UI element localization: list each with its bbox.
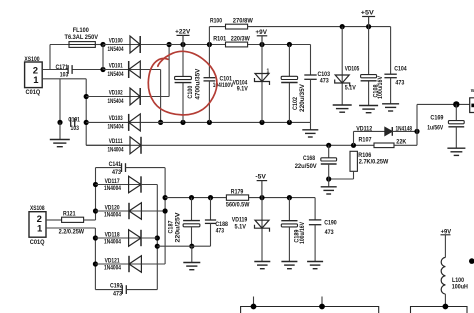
- svg-text:5.1V: 5.1V: [235, 224, 247, 230]
- svg-text:103: 103: [71, 126, 80, 132]
- svg-text:1: 1: [37, 223, 43, 234]
- svg-text:C102: C102: [293, 96, 299, 110]
- fuse FL100: [65, 28, 99, 47]
- capacitor C103: [304, 45, 330, 123]
- capacitor C189: [281, 198, 306, 262]
- capacitor C190: [309, 198, 337, 262]
- diode VD121: [95, 256, 141, 272]
- ground: [254, 262, 270, 269]
- power +9V: [255, 30, 267, 45]
- wire VD102 cathode to +22V rail: [141, 42, 172, 97]
- svg-text:1N4004: 1N4004: [108, 148, 124, 154]
- svg-text:VD119: VD119: [232, 218, 248, 224]
- svg-text:R106: R106: [358, 153, 372, 159]
- svg-text:473: 473: [113, 291, 123, 297]
- svg-text:1N5404: 1N5404: [108, 72, 124, 78]
- resistor R106: [326, 151, 389, 181]
- svg-text:C190: C190: [324, 220, 337, 226]
- svg-text:VD100: VD100: [109, 38, 123, 44]
- svg-text:1N5404: 1N5404: [108, 125, 124, 131]
- svg-text:1N4004: 1N4004: [104, 186, 122, 192]
- ground: [447, 148, 465, 155]
- wire output to C169: [417, 101, 470, 107]
- capacitor C104: [384, 27, 407, 104]
- wire +22V rail: [141, 42, 311, 47]
- svg-text:2.2/0.25W: 2.2/0.25W: [59, 229, 85, 235]
- capacitor C168: [295, 145, 337, 179]
- svg-text:FL100: FL100: [73, 28, 90, 34]
- svg-text:R121: R121: [63, 211, 76, 217]
- diode VD102: [86, 88, 140, 105]
- svg-text:9.1V: 9.1V: [237, 86, 248, 92]
- connector XS108: [29, 206, 46, 246]
- ground: [333, 105, 352, 112]
- diode VD118: [95, 230, 141, 246]
- connector XS100: [24, 57, 42, 96]
- capacitor C108: [361, 27, 384, 106]
- ground: [359, 106, 378, 113]
- svg-text:-5V: -5V: [255, 175, 266, 181]
- svg-text:220/3W: 220/3W: [231, 37, 250, 43]
- wire VD120/VD121 anode rail: [142, 168, 168, 264]
- svg-text:22K: 22K: [396, 140, 407, 146]
- wire pin1 riser x86: [84, 79, 130, 146]
- resistor R179: [226, 189, 250, 208]
- resistor R100: [209, 18, 390, 44]
- ground: [382, 104, 399, 111]
- svg-text:270/8W: 270/8W: [233, 19, 253, 25]
- svg-text:473: 473: [320, 78, 330, 84]
- power +9V: [441, 229, 452, 257]
- svg-text:1: 1: [267, 69, 270, 75]
- diode VD120: [96, 203, 142, 219]
- svg-text:C168: C168: [303, 156, 316, 162]
- svg-text:220u/35V: 220u/35V: [300, 84, 306, 112]
- svg-text:5.1V: 5.1V: [345, 86, 356, 92]
- ground: [321, 179, 337, 194]
- svg-text:XS100: XS100: [24, 57, 40, 63]
- svg-text:VD102: VD102: [109, 90, 123, 96]
- svg-text:22u/50V: 22u/50V: [295, 164, 317, 170]
- inductor L100: [441, 257, 468, 306]
- wire ground rail: [141, 120, 311, 125]
- diode VD117: [96, 176, 142, 192]
- capacitor C171: [56, 65, 73, 79]
- wire right edge stub: [469, 258, 474, 264]
- wire VD117/VD118 cathode rail: [141, 185, 160, 290]
- capacitor C169: [427, 104, 464, 148]
- svg-text:C141: C141: [109, 162, 122, 168]
- connector right edge: [470, 88, 474, 113]
- svg-text:4700u/35V: 4700u/35V: [196, 69, 202, 100]
- capacitor C187: [169, 198, 200, 249]
- svg-text:1: 1: [33, 75, 39, 86]
- svg-text:+9V: +9V: [255, 30, 267, 36]
- svg-text:1N4148: 1N4148: [396, 126, 413, 132]
- svg-text:L100: L100: [452, 278, 465, 284]
- box bottom-right: [411, 304, 468, 313]
- svg-text:R100: R100: [210, 18, 223, 24]
- svg-text:C100: C100: [188, 85, 194, 99]
- resistor R107: [359, 104, 418, 147]
- ground: [183, 246, 200, 270]
- annotation red circle: [148, 51, 217, 115]
- svg-text:C169: C169: [430, 116, 444, 122]
- svg-text:1N4004: 1N4004: [104, 212, 122, 218]
- svg-text:VD105: VD105: [345, 66, 360, 72]
- diode VD111: [86, 137, 141, 154]
- svg-text:C192: C192: [110, 284, 123, 290]
- svg-text:C103: C103: [318, 72, 331, 78]
- wire stub pin A: [251, 297, 257, 310]
- svg-text:R107: R107: [359, 137, 373, 143]
- wire stub pin B: [319, 297, 325, 310]
- svg-text:560/0.5W: 560/0.5W: [226, 202, 250, 208]
- ground: [302, 122, 318, 137]
- svg-text:+22V: +22V: [175, 29, 190, 35]
- svg-text:C101: C101: [220, 76, 233, 82]
- svg-text:C01Q: C01Q: [30, 240, 45, 246]
- svg-text:VD111: VD111: [109, 139, 124, 145]
- svg-text:1N4004: 1N4004: [104, 239, 122, 245]
- svg-text:1N5404: 1N5404: [108, 99, 124, 105]
- svg-text:XS108: XS108: [30, 206, 45, 212]
- svg-text:C104: C104: [394, 66, 407, 72]
- svg-text:C187: C187: [169, 220, 175, 234]
- svg-text:+5V: +5V: [361, 11, 374, 17]
- svg-text:C01Q: C01Q: [26, 90, 41, 96]
- capacitor C191: [68, 117, 80, 132]
- capacitor C192: [95, 284, 157, 298]
- ground: [281, 262, 297, 269]
- power +22V: [175, 29, 190, 44]
- wire -5V rail: [165, 195, 315, 200]
- svg-text:1u/56V: 1u/56V: [427, 126, 443, 132]
- svg-text:C188: C188: [215, 222, 228, 228]
- capacitor C101: [204, 45, 234, 123]
- svg-text:VD103: VD103: [109, 116, 123, 122]
- wire VD101 anode to ground rail: [141, 70, 164, 126]
- svg-text:100u/16V: 100u/16V: [300, 222, 306, 244]
- svg-text:100u/16V: 100u/16V: [378, 76, 384, 99]
- ground: [50, 122, 70, 146]
- wire upper-left rail: [93, 168, 98, 220]
- svg-text:R179: R179: [231, 189, 244, 195]
- zener diode VD105: [335, 27, 360, 105]
- capacitor C188: [205, 198, 229, 247]
- svg-text:473: 473: [112, 170, 122, 176]
- svg-text:100uH: 100uH: [452, 284, 468, 290]
- resistor R101: [213, 36, 250, 47]
- capacitor C102: [281, 45, 306, 123]
- wire XS108 pin1: [46, 228, 98, 290]
- diode VD101: [103, 61, 141, 78]
- svg-text:VD101: VD101: [109, 63, 123, 69]
- svg-text:R101: R101: [213, 36, 227, 42]
- wire XS100 pin1: [42, 79, 86, 125]
- svg-text:C191: C191: [68, 117, 80, 123]
- diode VD103: [86, 114, 140, 131]
- capacitor C141: [96, 162, 165, 176]
- svg-text:103: 103: [60, 73, 69, 79]
- resistor R121: [59, 211, 96, 235]
- wire VD118 cathode: [141, 237, 157, 239]
- svg-text:1N4004: 1N4004: [104, 265, 122, 271]
- svg-text:473: 473: [325, 230, 335, 236]
- capacitor C100: [175, 45, 202, 123]
- zener diode VD119: [232, 198, 270, 262]
- box bottom-left: [241, 307, 379, 313]
- svg-text:T6.3AL 250V: T6.3AL 250V: [65, 35, 99, 41]
- node fuse output / VD100 anode: [100, 42, 105, 72]
- svg-text:C171: C171: [56, 65, 69, 71]
- svg-text:473: 473: [216, 228, 225, 234]
- svg-text:1N5404: 1N5404: [108, 47, 124, 53]
- zener diode VD104: [233, 45, 270, 123]
- svg-text:2.7K/0.25W: 2.7K/0.25W: [359, 160, 389, 166]
- svg-text:220u/25V: 220u/25V: [175, 213, 181, 243]
- wire XS100 pin2 to fuse and C171: [42, 45, 103, 70]
- power +5V: [361, 11, 375, 27]
- ground: [307, 262, 323, 269]
- wire VD111 cathode rail: [142, 143, 375, 148]
- wire XS108 pin2: [46, 219, 62, 221]
- svg-text:VD112: VD112: [356, 126, 373, 132]
- power -5V: [255, 175, 267, 198]
- wire ground link: [157, 245, 210, 247]
- diode VD100: [103, 36, 141, 53]
- svg-text:473: 473: [395, 80, 405, 86]
- diode VD112: [354, 126, 420, 145]
